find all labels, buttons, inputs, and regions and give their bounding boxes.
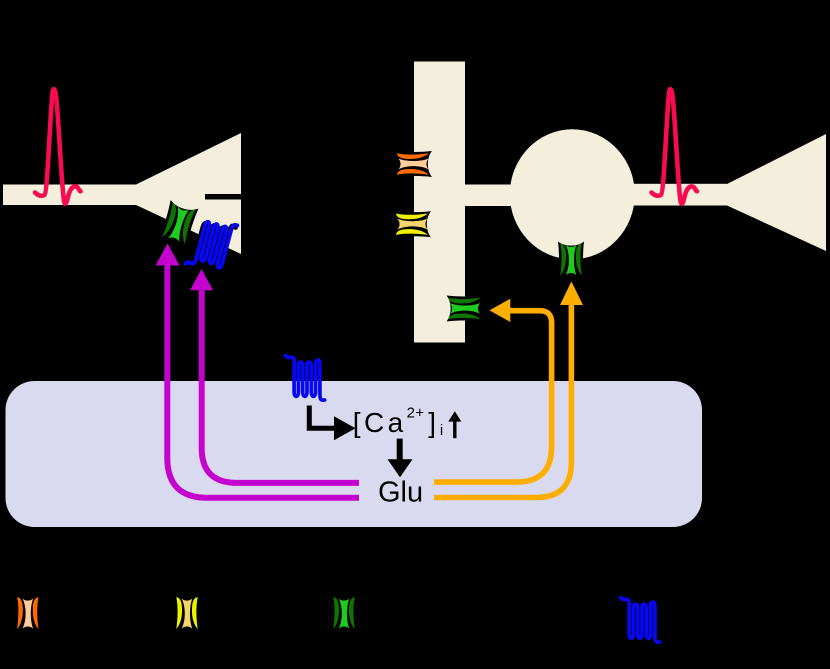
orange arrowhead up: [560, 282, 583, 306]
svg-text:[Ca2+]i: [Ca2+]i: [353, 405, 447, 439]
svg-text:Glu: Glu: [378, 477, 423, 509]
GPCR on astrocyte membrane: [286, 356, 325, 401]
legend yellow receptor: [174, 595, 200, 632]
legend GPCR: [621, 598, 660, 643]
axon terminal (right): [727, 134, 826, 251]
black down arrow to Glu: [397, 439, 403, 460]
synaptic cleft notch (left terminal): [205, 194, 242, 200]
axon band right: [633, 184, 727, 206]
orange arrowhead left: [490, 299, 511, 322]
GPCR on presynaptic terminal (black shadow): [184, 216, 236, 275]
orange receptor on dendrite bar: [395, 151, 432, 177]
soma circle: [510, 129, 635, 259]
up arrow glyph after Ca text: [453, 415, 456, 438]
GPCR on presynaptic terminal (blue): [186, 215, 238, 274]
green receptor on presynaptic terminal: [159, 200, 199, 248]
black elbow arrow from GPCR to Ca text: [309, 406, 335, 429]
action potential right: [652, 89, 698, 204]
magenta pathway inner line: [202, 289, 359, 483]
astrocyte body: [6, 381, 703, 527]
presynaptic axon and terminal (left): [3, 133, 241, 254]
orange pathway left-arrow line: [434, 311, 552, 482]
legend green receptor: [331, 595, 357, 632]
magenta arrowhead outer: [156, 244, 180, 266]
bright green receptor under soma: [558, 242, 584, 279]
magenta pathway outer line: [167, 264, 359, 498]
yellow receptor on dendrite bar: [394, 211, 431, 237]
postsynaptic dendrite bar (middle): [414, 62, 465, 343]
legend orange receptor: [15, 595, 41, 632]
dendrite stub to soma: [465, 185, 512, 207]
orange pathway up-arrow line: [434, 304, 571, 498]
action potential left: [35, 89, 81, 204]
magenta arrowhead inner: [190, 269, 213, 290]
dark green receptor on dendrite bar: [447, 296, 484, 322]
